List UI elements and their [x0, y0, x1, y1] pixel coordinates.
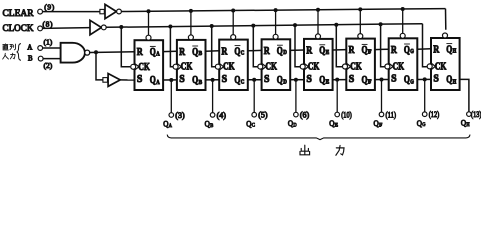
svg-text:H: H — [466, 122, 469, 128]
svg-text:(8): (8) — [43, 19, 54, 28]
svg-text:(10): (10) — [341, 110, 352, 119]
svg-text:Q: Q — [329, 118, 334, 128]
svg-text:B: B — [199, 51, 203, 57]
svg-text:(1): (1) — [44, 38, 53, 47]
svg-text:Q: Q — [192, 75, 198, 86]
svg-text:(11): (11) — [386, 110, 397, 119]
svg-text:S: S — [137, 73, 143, 85]
svg-text:Q: Q — [288, 118, 293, 128]
svg-text:R: R — [264, 45, 271, 57]
svg-text:S: S — [222, 73, 228, 85]
svg-text:H: H — [453, 49, 457, 55]
svg-text:G: G — [422, 122, 425, 128]
svg-text:B: B — [28, 55, 33, 62]
svg-text:CK: CK — [181, 62, 193, 73]
svg-text:R: R — [137, 46, 144, 58]
svg-text:B: B — [210, 123, 213, 129]
svg-text:CK: CK — [266, 62, 278, 73]
svg-text:CLOCK: CLOCK — [3, 24, 34, 34]
svg-text:E: E — [326, 50, 330, 56]
svg-text:Q: Q — [446, 75, 452, 86]
svg-text:C: C — [241, 51, 245, 57]
svg-text:(9): (9) — [44, 2, 55, 11]
svg-text:R: R — [306, 45, 313, 57]
svg-text:S: S — [179, 73, 185, 85]
svg-text:Q: Q — [246, 118, 251, 128]
svg-text:Q: Q — [374, 118, 379, 128]
svg-text:G: G — [410, 79, 414, 85]
svg-text:Q: Q — [404, 75, 410, 86]
svg-text:(2): (2) — [44, 61, 53, 70]
svg-text:D: D — [293, 123, 296, 129]
svg-text:Q: Q — [277, 75, 283, 86]
svg-text:A: A — [156, 80, 160, 86]
svg-text:S: S — [433, 73, 439, 85]
svg-text:CK: CK — [138, 62, 150, 73]
svg-text:Q: Q — [319, 46, 325, 57]
svg-text:Q: Q — [234, 75, 240, 86]
svg-text:B: B — [199, 80, 203, 86]
svg-text:Q: Q — [192, 47, 198, 58]
svg-text:S: S — [391, 73, 397, 85]
svg-text:(3): (3) — [175, 111, 185, 120]
svg-text:Q: Q — [234, 46, 240, 57]
svg-text:(5): (5) — [258, 111, 268, 120]
svg-text:F: F — [368, 49, 372, 55]
svg-text:Q: Q — [404, 45, 410, 56]
svg-text:R: R — [433, 43, 440, 55]
svg-text:F: F — [379, 122, 382, 128]
svg-text:Q: Q — [163, 119, 168, 129]
svg-text:S: S — [306, 73, 312, 85]
svg-text:Q: Q — [319, 75, 325, 86]
svg-text:E: E — [335, 122, 339, 128]
svg-text:(4): (4) — [217, 111, 227, 120]
svg-text:Q: Q — [205, 119, 210, 129]
svg-text:(13): (13) — [471, 110, 481, 119]
svg-text:(12): (12) — [429, 110, 440, 119]
svg-text:C: C — [252, 123, 255, 129]
svg-text:D: D — [283, 50, 287, 56]
svg-text:R: R — [391, 44, 398, 56]
svg-text:A: A — [27, 45, 32, 52]
svg-text:S: S — [349, 73, 355, 85]
svg-text:Q: Q — [150, 47, 156, 58]
svg-text:S: S — [264, 73, 270, 85]
svg-text:Q: Q — [150, 75, 156, 86]
svg-text:Q: Q — [461, 118, 466, 128]
svg-text:CK: CK — [350, 62, 362, 73]
svg-text:R: R — [349, 44, 356, 56]
svg-text:C: C — [241, 80, 245, 86]
svg-text:R: R — [221, 45, 228, 57]
svg-text:Q: Q — [362, 75, 368, 86]
svg-text:Q: Q — [277, 46, 283, 57]
svg-text:CLEAR: CLEAR — [3, 9, 35, 19]
svg-text:A: A — [169, 123, 172, 129]
svg-text:H: H — [453, 79, 457, 85]
svg-text:CK: CK — [223, 62, 235, 73]
svg-text:E: E — [326, 80, 330, 86]
svg-text:Q: Q — [417, 118, 422, 128]
svg-text:R: R — [179, 46, 186, 58]
svg-text:Q: Q — [362, 45, 368, 56]
svg-text:(6): (6) — [300, 111, 310, 120]
svg-text:CK: CK — [435, 61, 447, 72]
svg-text:F: F — [368, 80, 372, 86]
svg-text:Q: Q — [446, 44, 452, 55]
svg-text:CK: CK — [308, 62, 320, 73]
svg-text:CK: CK — [393, 62, 405, 73]
svg-text:A: A — [156, 51, 160, 57]
svg-text:D: D — [283, 80, 287, 86]
svg-text:G: G — [410, 49, 414, 55]
